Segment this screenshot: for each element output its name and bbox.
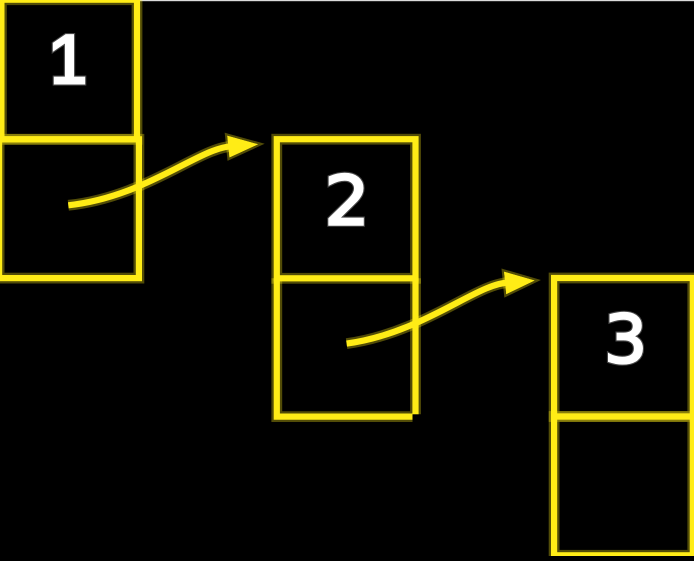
node 3 label "3" [609,313,642,363]
node 3 pointer cell [554,417,693,556]
node 1 data cell [1,0,137,139]
frame edge highlight (1px light line along top) [0,0,694,1]
node 2 data cell [277,139,416,278]
arrow 1 head [227,136,258,158]
arrow 2 shaft: node 2 pointer to node 3 [347,283,510,344]
node 2 label "2" [330,174,363,225]
arrow 1 shaft: node 1 pointer to node 2 [68,146,233,205]
node 2 pointer cell (open bottom-right corner) [277,278,416,416]
node 3 data cell [554,278,693,417]
node 1 label "1" [54,35,84,83]
arrow 2 head [504,272,534,294]
node 1 pointer cell [0,139,139,278]
